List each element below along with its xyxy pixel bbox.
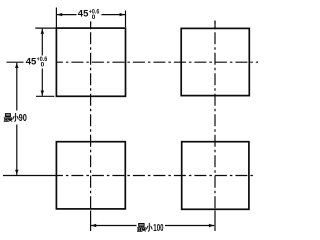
dimension minimum 100 arrow right: [209, 224, 214, 227]
svg-text:45: 45: [26, 57, 37, 68]
centerline horizontal top row: [7, 61, 259, 63]
centerline horizontal bottom row: [3, 175, 255, 177]
dimension left height 45 value label: [26, 56, 48, 68]
dimension minimum 100 line: [91, 225, 214, 227]
dimension minimum 90 line: [16, 63, 18, 175]
dimension left height 45 extension line bottom: [36, 95, 54, 97]
dimension minimum 90 arrow bottom: [15, 170, 18, 175]
centerline vertical left column: [90, 21, 92, 231]
svg-text:0: 0: [92, 14, 96, 21]
centerline vertical right column: [214, 21, 216, 231]
svg-text:100: 100: [153, 223, 164, 234]
dimension top width 45 extension line left: [55, 8, 57, 28]
svg-text:90: 90: [19, 113, 28, 124]
dimension top width 45 value label: [78, 8, 100, 20]
dimension left height 45 arrow bottom: [41, 91, 44, 96]
dimension top width 45 arrow right: [120, 13, 125, 16]
dimension left height 45 arrow top: [41, 29, 44, 34]
svg-text:45: 45: [78, 8, 89, 19]
dimension left height 45 extension line top: [35, 27, 56, 29]
dimension minimum 100 label glyph zui: [138, 224, 146, 232]
svg-text:0: 0: [41, 62, 45, 69]
cutout square bottom-left: [56, 142, 125, 209]
cutout square bottom-right: [182, 142, 249, 210]
dimension minimum 100 arrow left: [91, 224, 96, 227]
cutout square top-left: [56, 28, 125, 96]
dimension top width 45 extension line right: [125, 11, 127, 28]
cutout square top-right: [181, 28, 249, 95]
dimension minimum 100 label glyph xiao: [147, 223, 153, 231]
dimension left height 45 line: [41, 29, 43, 96]
dimension minimum 90 label glyph xiao: [13, 113, 18, 121]
dimension top width 45 line: [57, 14, 125, 16]
dimension minimum 90 label glyph zui: [4, 114, 12, 122]
dimension top width 45 arrow left: [57, 13, 62, 16]
dimension minimum 90 arrow top: [15, 63, 18, 68]
